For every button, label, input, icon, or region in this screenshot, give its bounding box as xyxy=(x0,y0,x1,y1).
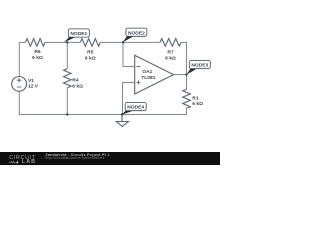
svg-text:R6: R6 xyxy=(34,49,41,55)
svg-text:R5: R5 xyxy=(87,49,94,55)
svg-text:V1: V1 xyxy=(28,78,34,84)
svg-text:R7: R7 xyxy=(167,49,174,55)
svg-text:TL081: TL081 xyxy=(141,75,155,81)
svg-text:R4: R4 xyxy=(72,78,79,84)
svg-text:6 kΩ: 6 kΩ xyxy=(192,101,203,107)
svg-text:12 V: 12 V xyxy=(28,83,39,89)
svg-text:6 kΩ: 6 kΩ xyxy=(32,55,43,61)
svg-text:6 kΩ: 6 kΩ xyxy=(72,83,83,89)
svg-text:6 kΩ: 6 kΩ xyxy=(85,55,96,61)
svg-text:NODE3: NODE3 xyxy=(191,63,208,69)
svg-text:OA1: OA1 xyxy=(142,69,152,75)
svg-text:6 kΩ: 6 kΩ xyxy=(165,55,176,61)
svg-text:R1: R1 xyxy=(192,95,199,101)
svg-text:NODE4: NODE4 xyxy=(127,105,144,111)
svg-text:NODE1: NODE1 xyxy=(70,31,87,37)
svg-text:NODE2: NODE2 xyxy=(128,30,145,36)
